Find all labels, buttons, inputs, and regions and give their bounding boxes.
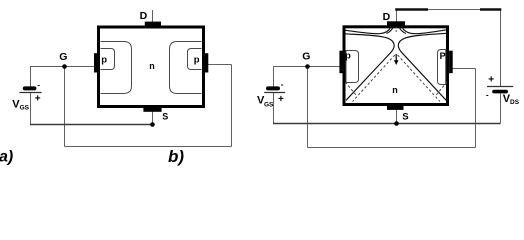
svg-text:n: n [392,85,398,95]
svg-text:S: S [402,112,408,123]
svg-text:D: D [383,11,391,23]
svg-text:GS: GS [20,105,30,112]
svg-text:p: p [345,51,351,62]
svg-text:-: - [486,91,489,100]
svg-text:p: p [194,54,200,65]
svg-text:DS: DS [510,99,520,106]
svg-text:a): a) [0,149,13,166]
svg-text:+: + [488,75,494,86]
svg-text:p: p [101,55,107,66]
svg-text:+: + [35,94,41,105]
svg-text:S: S [162,112,168,122]
svg-text:P: P [440,51,446,61]
svg-text:G: G [302,51,310,63]
svg-text:-: - [281,80,284,89]
svg-text:GS: GS [264,102,274,109]
svg-text:n: n [149,61,155,71]
svg-text:b): b) [168,147,184,166]
svg-text:-: - [37,81,40,90]
svg-text:+: + [278,94,284,105]
svg-text:D: D [140,10,148,22]
svg-text:G: G [59,51,67,63]
